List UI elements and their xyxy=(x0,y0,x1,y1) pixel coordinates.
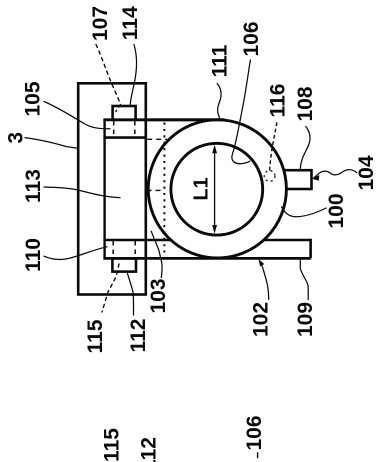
leader 106 xyxy=(232,60,251,164)
leader 107 dashed xyxy=(96,45,121,112)
rail 102 top edge wire xyxy=(103,239,310,242)
arrowhead 102 xyxy=(258,259,264,267)
arm 105 lower edge wire xyxy=(103,136,146,139)
leader 104 xyxy=(314,170,357,178)
bolt head 114 xyxy=(113,106,136,120)
svg-text:111: 111 xyxy=(208,44,231,77)
bolt 115 shank hidden lines xyxy=(112,241,114,257)
plate 3 xyxy=(78,83,146,294)
svg-text:107: 107 xyxy=(89,6,112,41)
rail right end wire xyxy=(309,239,312,259)
svg-text:114: 114 xyxy=(119,6,142,40)
rail 109 bottom edge wire xyxy=(103,257,310,260)
leader 103 xyxy=(151,231,162,277)
bore 106 inner circle xyxy=(171,143,263,235)
svg-text:106: 106 xyxy=(243,415,266,450)
leader 114 xyxy=(130,45,136,107)
svg-text:112: 112 xyxy=(137,437,160,462)
svg-text:110: 110 xyxy=(22,238,45,272)
bolt head 112 xyxy=(112,258,136,271)
leader 111 xyxy=(217,84,221,120)
dimension L1 arrowhead top xyxy=(212,145,217,154)
hidden hole 116 xyxy=(264,171,275,182)
hidden line vertical 103 xyxy=(163,123,165,253)
svg-text:113: 113 xyxy=(22,169,45,203)
svg-text:102: 102 xyxy=(249,302,272,337)
leader 106b dash xyxy=(257,453,259,458)
leader 116 dashed xyxy=(270,123,277,171)
svg-text:106: 106 xyxy=(240,21,263,56)
leader 115 dashed xyxy=(102,264,119,312)
leader 112 xyxy=(128,274,134,316)
leader 102 xyxy=(262,266,269,300)
leader 100 xyxy=(282,207,327,217)
svg-text:112: 112 xyxy=(127,319,150,353)
pin block 108 xyxy=(280,170,312,189)
leader 109 xyxy=(300,260,308,300)
svg-text:100: 100 xyxy=(325,193,348,228)
leader 110 xyxy=(44,247,107,260)
arm 111 top rail wire over ring xyxy=(150,118,225,121)
svg-text:116: 116 xyxy=(266,84,289,118)
svg-text:115: 115 xyxy=(84,319,107,353)
svg-text:105: 105 xyxy=(21,81,44,116)
dimension L1 arrow xyxy=(214,147,216,231)
arm 111 top rail wire xyxy=(103,118,224,121)
leader 3 xyxy=(25,138,78,148)
svg-text:115: 115 xyxy=(100,428,123,462)
arrowhead 104 xyxy=(312,175,320,181)
svg-text:L1: L1 xyxy=(190,177,212,200)
ring 100 outer circle xyxy=(148,120,286,258)
leader 108 xyxy=(300,127,310,170)
svg-text:104: 104 xyxy=(355,155,378,190)
leader 113 xyxy=(44,187,120,198)
svg-text:109: 109 xyxy=(294,302,317,337)
block 113 left edge wire xyxy=(103,119,105,259)
leader 105 xyxy=(44,102,110,129)
bolt 107 shank hidden lines xyxy=(113,121,115,137)
dimension L1 arrowhead bottom xyxy=(212,225,217,234)
hidden line y190 xyxy=(147,189,165,191)
svg-text:3: 3 xyxy=(4,132,27,144)
svg-text:108: 108 xyxy=(294,86,317,121)
hidden line y139 xyxy=(147,138,167,140)
svg-text:103: 103 xyxy=(147,278,170,313)
